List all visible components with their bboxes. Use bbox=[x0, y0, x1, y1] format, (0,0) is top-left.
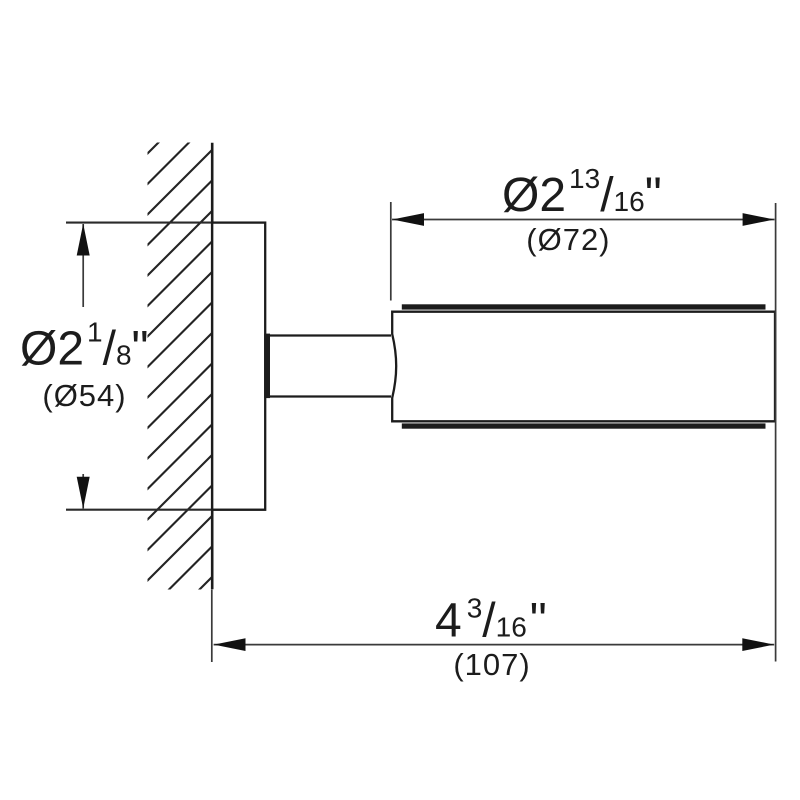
svg-text:(Ø72): (Ø72) bbox=[526, 222, 610, 257]
svg-text:43/16": 43/16" bbox=[435, 593, 547, 648]
svg-text:(107): (107) bbox=[453, 647, 530, 682]
right extension line (shared by top and bottom dims) bbox=[775, 203, 777, 662]
extension line bottom (flange bottom, Ø2 1/8) bbox=[66, 509, 266, 511]
wall face line bbox=[211, 143, 214, 590]
bottom dim arrow left bbox=[214, 638, 246, 651]
wall hatching bbox=[87, 0, 311, 702]
top dim arrow left bbox=[392, 213, 424, 226]
extension line top (flange top, Ø2 1/8) bbox=[66, 222, 266, 224]
bottom dimension extension line left bbox=[211, 590, 213, 663]
holder bottom lip ring bbox=[402, 423, 766, 428]
left dim arrow down bbox=[77, 477, 90, 509]
left dim arrow up bbox=[77, 224, 90, 256]
bottom dim arrow right bbox=[742, 638, 774, 651]
left dimension line Ø2 1/8 (lower segment) bbox=[82, 474, 84, 509]
top dimension line Ø2 13/16 bbox=[392, 219, 775, 221]
collar at flange/post joint bbox=[264, 334, 270, 399]
post (stem) bottom line bbox=[266, 395, 391, 397]
post (stem) top line bbox=[266, 334, 391, 336]
holder body (cylinder) bbox=[392, 312, 775, 422]
left dimension line Ø2 1/8 (upper segment) bbox=[82, 224, 84, 307]
flange (wall plate) bbox=[212, 223, 265, 510]
top dim arrow right bbox=[743, 213, 775, 226]
svg-text:(Ø54): (Ø54) bbox=[42, 378, 126, 413]
bottom dimension line 4 3/16 bbox=[214, 644, 775, 646]
holder top lip ring bbox=[402, 304, 766, 309]
top dimension extension line left bbox=[390, 202, 392, 301]
